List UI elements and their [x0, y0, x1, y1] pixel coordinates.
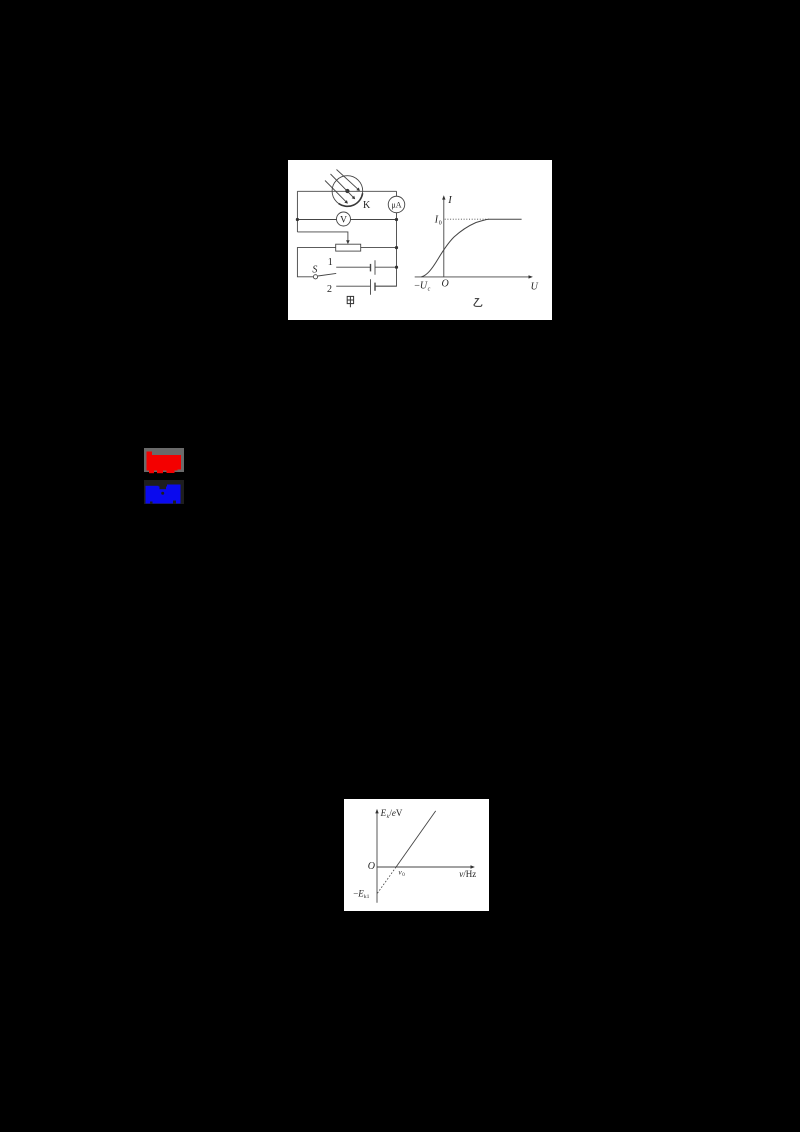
slider arrow: [346, 240, 350, 244]
svg-text:c: c: [428, 287, 431, 293]
switch S pivot: [313, 275, 317, 279]
ray arrowheads: [344, 188, 360, 204]
answer chip blue: [144, 480, 184, 504]
blue scribble: [146, 485, 181, 504]
graph yi: x axis: [415, 276, 531, 278]
phototube anode dot: [345, 189, 349, 193]
wire pot left and down to switch: [297, 248, 335, 277]
svg-text:0: 0: [402, 873, 405, 878]
Ek line dashed extension: [377, 867, 396, 894]
wire top horizontal: [297, 190, 396, 192]
microammeter uA: [388, 196, 405, 213]
figure panel 2: Ek vs frequency graph: [344, 799, 489, 911]
label jia (CJK drawn): [347, 296, 353, 307]
svg-text:0: 0: [439, 220, 442, 226]
red scribble: [147, 452, 182, 474]
light ray 1: [325, 170, 359, 203]
svg-text:/eV: /eV: [389, 807, 403, 817]
x axis: [377, 866, 473, 868]
wire battery1 right: [375, 266, 397, 268]
potentiometer: [336, 244, 361, 251]
svg-text:2: 2: [327, 284, 332, 295]
dotted saturation line I0: [445, 218, 489, 220]
svg-text:U: U: [531, 281, 539, 292]
figure panel 1: circuit (jia) and I-U graph (yi): [288, 160, 552, 320]
wire pot right: [361, 247, 397, 249]
y axis: [376, 811, 378, 902]
svg-text:−U: −U: [414, 281, 428, 292]
I-U curve: [421, 219, 521, 277]
svg-text:K: K: [363, 200, 371, 211]
wire right vertical: [375, 191, 397, 286]
svg-text:E: E: [380, 807, 387, 817]
svg-text:O: O: [442, 279, 449, 290]
svg-text:ν/Hz: ν/Hz: [459, 868, 476, 878]
svg-text:1: 1: [328, 257, 333, 268]
graph yi: y axis: [443, 198, 445, 277]
svg-text:V: V: [340, 216, 347, 226]
battery 1: [371, 260, 376, 275]
wire voltmeter row: [297, 219, 396, 221]
label yi (CJK drawn): [474, 299, 482, 307]
switch lever: [318, 273, 336, 276]
wire left vertical upper: [296, 191, 298, 232]
voltmeter V: [337, 212, 351, 226]
svg-text:I: I: [447, 195, 452, 206]
answer chip red: [144, 448, 184, 472]
wire slider branch: [297, 232, 348, 241]
wire contact 2: [336, 285, 396, 287]
svg-text:k1: k1: [364, 894, 370, 900]
svg-text:O: O: [368, 860, 375, 871]
Ek line solid: [396, 810, 436, 866]
phototube cathode arc: [339, 193, 363, 206]
svg-text:S: S: [312, 265, 317, 276]
battery 2: [371, 279, 376, 295]
svg-text:μA: μA: [391, 201, 401, 210]
svg-text:−E: −E: [353, 888, 364, 898]
wire contact 1: [336, 266, 370, 268]
junction dots: [296, 218, 398, 269]
phototube K: [332, 176, 363, 207]
